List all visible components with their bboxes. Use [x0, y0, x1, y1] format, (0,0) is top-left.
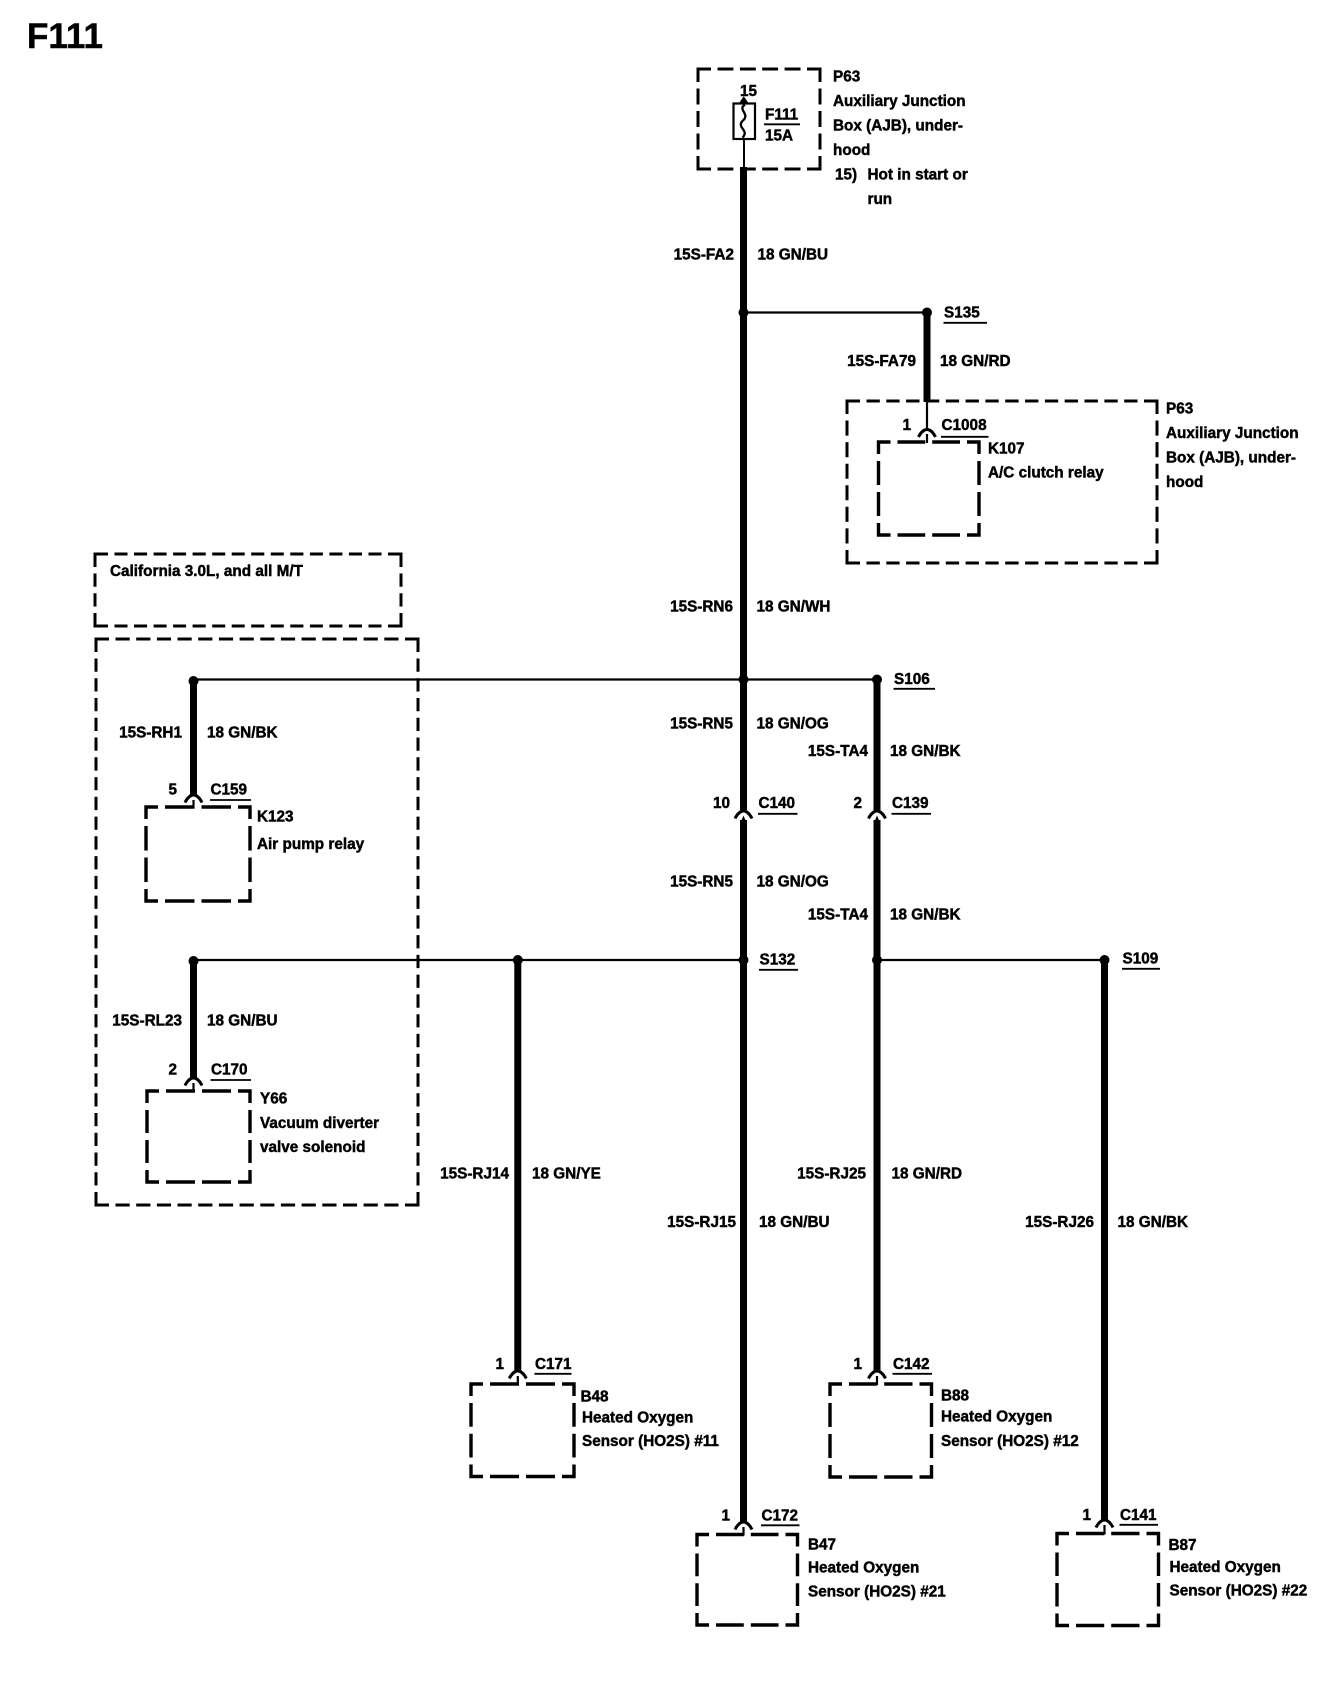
svg-text:Auxiliary Junction: Auxiliary Junction: [1166, 425, 1299, 442]
svg-text:B87: B87: [1169, 1537, 1197, 1554]
California label box: [95, 554, 401, 626]
svg-text:Box (AJB), under-: Box (AJB), under-: [833, 118, 963, 135]
svg-text:2: 2: [853, 795, 862, 812]
C170 stub: [192, 1083, 194, 1092]
svg-text:1: 1: [495, 1356, 504, 1373]
junction dot on main wire at S135: [739, 308, 749, 318]
svg-text:18 GN/BK: 18 GN/BK: [1118, 1214, 1189, 1231]
svg-text:18 GN/WH: 18 GN/WH: [757, 599, 831, 616]
svg-text:C172: C172: [762, 1508, 799, 1525]
connector C141 chevron: [1096, 1520, 1113, 1528]
wire 15S-TA4 (lower segment): [874, 820, 881, 1373]
C1008 stub: [926, 434, 928, 443]
svg-text:18 GN/BK: 18 GN/BK: [890, 907, 961, 924]
svg-text:C140: C140: [759, 795, 796, 812]
wire 15S-RL23: [190, 960, 197, 1080]
svg-text:18 GN/YE: 18 GN/YE: [532, 1166, 601, 1183]
svg-text:Y66: Y66: [260, 1091, 287, 1108]
junction dot main wire S132: [739, 955, 749, 965]
svg-text:15S-RJ25: 15S-RJ25: [797, 1166, 866, 1183]
connector C139 chevron: [869, 811, 886, 819]
svg-text:18 GN/RD: 18 GN/RD: [892, 1166, 963, 1183]
fuse lead wire: [743, 139, 745, 169]
wire 15S-RH1: [190, 680, 197, 797]
svg-text:hood: hood: [1166, 474, 1203, 491]
node dot left S106: [189, 676, 199, 686]
connector C170 chevron: [185, 1078, 202, 1086]
svg-text:15S-FA79: 15S-FA79: [847, 353, 916, 370]
svg-text:5: 5: [168, 782, 177, 799]
svg-text:15S-TA4: 15S-TA4: [808, 743, 869, 760]
relay K123 box: [146, 807, 250, 901]
solenoid Y66 box: [147, 1091, 250, 1182]
wire 15S-RN5 (lower segment): [740, 820, 747, 1524]
svg-text:15S-RH1: 15S-RH1: [119, 725, 182, 742]
svg-text:18 GN/BK: 18 GN/BK: [207, 725, 278, 742]
C141 stub: [1103, 1525, 1105, 1535]
svg-text:1: 1: [902, 417, 911, 434]
junction dot S109 left: [872, 955, 882, 965]
svg-text:K107: K107: [988, 441, 1025, 458]
C171 stub: [517, 1376, 519, 1385]
C172 stub: [742, 1527, 744, 1536]
svg-text:18 GN/RD: 18 GN/RD: [940, 353, 1011, 370]
wire 15S-FA2/RN6/RN5 (main vertical): [740, 167, 747, 810]
svg-text:Heated Oxygen: Heated Oxygen: [941, 1409, 1052, 1426]
svg-text:S106: S106: [894, 671, 930, 688]
svg-text:F111: F111: [27, 17, 103, 56]
splice S106 dot: [872, 675, 882, 685]
svg-text:15A: 15A: [765, 128, 793, 145]
node dot B48 branch: [513, 955, 523, 965]
svg-text:15S-FA2: 15S-FA2: [674, 247, 734, 264]
svg-text:15): 15): [835, 167, 857, 184]
svg-text:Hot in start or: Hot in start or: [868, 167, 968, 184]
splice S135 dot: [922, 308, 932, 318]
svg-text:B47: B47: [808, 1537, 836, 1554]
connector C140 chevron: [735, 811, 752, 819]
svg-text:hood: hood: [833, 142, 870, 159]
svg-text:F111: F111: [765, 107, 799, 124]
svg-text:run: run: [868, 191, 893, 208]
svg-text:C142: C142: [893, 1356, 930, 1373]
connector C171 chevron: [509, 1371, 526, 1379]
junction box P63 (AJB, underhood): [847, 401, 1157, 563]
pin 15 arrow: [738, 96, 750, 104]
wire 15S-FA79: [924, 311, 931, 402]
svg-text:10: 10: [713, 795, 730, 812]
wire 15S-RJ14: [514, 960, 521, 1373]
C159 stub: [192, 800, 194, 808]
splice S132 line: [194, 959, 744, 961]
svg-text:Box (AJB), under-: Box (AJB), under-: [1166, 450, 1296, 467]
svg-text:2: 2: [168, 1062, 177, 1079]
sensor B48 box: [471, 1384, 574, 1477]
wire 15S-TA4 (upper segment): [874, 680, 881, 811]
svg-text:K123: K123: [257, 809, 294, 826]
junction box P63 (fuse enclosure): [698, 69, 820, 169]
svg-text:S132: S132: [760, 952, 796, 969]
connector C172 chevron: [735, 1522, 752, 1530]
svg-text:Heated Oxygen: Heated Oxygen: [808, 1560, 919, 1577]
svg-text:15S-RN5: 15S-RN5: [670, 874, 733, 891]
svg-text:18 GN/OG: 18 GN/OG: [757, 874, 829, 891]
svg-text:California 3.0L, and all M/T: California 3.0L, and all M/T: [110, 563, 304, 580]
svg-text:Sensor (HO2S) #22: Sensor (HO2S) #22: [1170, 1583, 1308, 1600]
svg-text:15S-RJ26: 15S-RJ26: [1025, 1214, 1094, 1231]
svg-text:1: 1: [853, 1356, 862, 1373]
svg-text:15S-RJ14: 15S-RJ14: [440, 1166, 509, 1183]
sensor B47 box: [697, 1535, 798, 1626]
svg-text:1: 1: [721, 1508, 730, 1525]
fuse F111 body: [734, 104, 756, 140]
svg-text:C170: C170: [211, 1062, 248, 1079]
sensor B88 box: [830, 1384, 932, 1477]
svg-text:Sensor (HO2S) #21: Sensor (HO2S) #21: [808, 1584, 946, 1601]
splice S109 dot: [1100, 955, 1110, 965]
svg-text:Vacuum diverter: Vacuum diverter: [260, 1115, 379, 1132]
splice S106 line: [194, 678, 878, 680]
svg-text:Sensor (HO2S) #11: Sensor (HO2S) #11: [582, 1433, 719, 1450]
connector C142 chevron: [869, 1371, 886, 1379]
splice S109 line: [877, 959, 1105, 961]
svg-text:P63: P63: [1166, 401, 1193, 418]
svg-text:18 GN/OG: 18 GN/OG: [757, 716, 829, 733]
svg-text:C171: C171: [535, 1356, 572, 1373]
svg-text:Air pump relay: Air pump relay: [257, 836, 365, 853]
svg-text:18 GN/BU: 18 GN/BU: [207, 1013, 278, 1030]
svg-text:15S-RJ15: 15S-RJ15: [667, 1214, 736, 1231]
C142 stub: [876, 1376, 878, 1385]
svg-text:15S-RN5: 15S-RN5: [670, 716, 733, 733]
svg-text:C159: C159: [211, 782, 248, 799]
svg-text:C141: C141: [1120, 1507, 1157, 1524]
svg-text:B88: B88: [941, 1388, 970, 1405]
svg-text:S109: S109: [1123, 951, 1159, 968]
C1008 lead: [926, 402, 928, 430]
splice S135 branch line: [744, 311, 928, 313]
svg-text:C139: C139: [892, 795, 929, 812]
svg-text:S135: S135: [944, 305, 980, 322]
svg-text:18 GN/BK: 18 GN/BK: [890, 743, 961, 760]
svg-text:P63: P63: [833, 69, 860, 86]
svg-text:valve solenoid: valve solenoid: [260, 1139, 365, 1156]
node dot left S132: [189, 956, 199, 966]
junction dot main wire S106: [739, 675, 749, 685]
svg-text:B48: B48: [581, 1389, 610, 1406]
svg-text:1: 1: [1082, 1507, 1091, 1524]
svg-text:18 GN/BU: 18 GN/BU: [759, 1214, 830, 1231]
svg-text:Auxiliary Junction: Auxiliary Junction: [833, 93, 966, 110]
svg-text:Sensor (HO2S) #12: Sensor (HO2S) #12: [941, 1433, 1079, 1450]
svg-text:15S-RN6: 15S-RN6: [670, 599, 733, 616]
svg-text:15: 15: [740, 83, 758, 100]
sensor B87 box: [1057, 1534, 1159, 1626]
relay K107 box: [879, 442, 980, 535]
connector C1008 chevron: [919, 430, 936, 438]
wire tip below C139: [874, 816, 881, 825]
svg-text:15S-RL23: 15S-RL23: [112, 1013, 182, 1030]
wire tip below C140: [740, 816, 747, 825]
svg-text:Heated Oxygen: Heated Oxygen: [582, 1410, 693, 1427]
svg-text:15S-TA4: 15S-TA4: [808, 907, 869, 924]
connector C159 chevron: [185, 795, 202, 803]
svg-text:A/C clutch relay: A/C clutch relay: [988, 465, 1104, 482]
svg-text:Heated Oxygen: Heated Oxygen: [1170, 1559, 1281, 1576]
svg-text:18 GN/BU: 18 GN/BU: [758, 247, 829, 264]
wire 15S-RJ26: [1101, 960, 1108, 1522]
California option enclosure: [96, 639, 418, 1205]
svg-text:C1008: C1008: [942, 417, 988, 434]
